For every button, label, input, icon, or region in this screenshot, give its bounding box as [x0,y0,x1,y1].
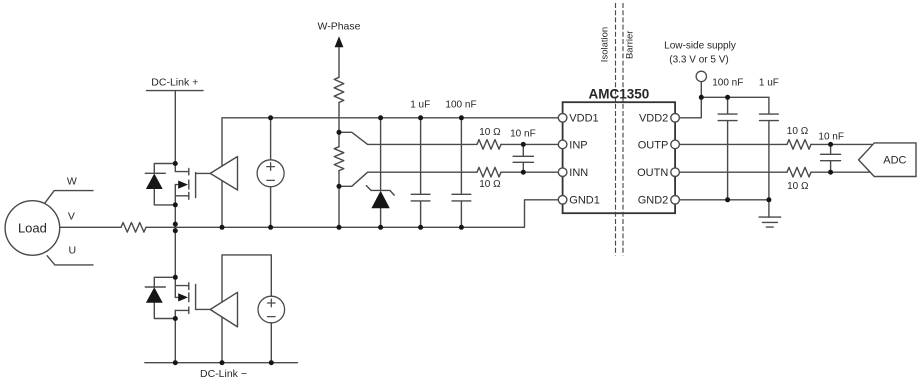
svg-text:1 uF: 1 uF [410,99,430,110]
svg-text:VDD2: VDD2 [639,113,668,125]
svg-text:GND1: GND1 [569,195,600,207]
svg-text:ADC: ADC [883,155,906,167]
svg-text:10 nF: 10 nF [510,129,536,140]
svg-text:DC-Link +: DC-Link + [151,76,198,88]
svg-text:10 Ω: 10 Ω [479,179,501,190]
svg-text:OUTP: OUTP [638,139,669,151]
svg-text:INN: INN [569,167,588,179]
svg-text:U: U [69,245,77,257]
svg-text:INP: INP [569,139,587,151]
svg-text:Load: Load [18,220,47,235]
svg-text:10 Ω: 10 Ω [479,127,501,138]
svg-text:V: V [68,210,75,222]
svg-text:Barrier: Barrier [624,31,635,60]
svg-text:10 Ω: 10 Ω [787,181,809,192]
svg-text:W-Phase: W-Phase [318,21,361,33]
svg-text:DC-Link −: DC-Link − [200,368,247,380]
svg-text:VDD1: VDD1 [569,113,598,125]
svg-text:1 uF: 1 uF [759,78,779,89]
svg-text:10 nF: 10 nF [818,131,844,142]
svg-text:W: W [67,175,77,187]
svg-text:GND2: GND2 [638,195,669,207]
svg-text:Low-side supply: Low-side supply [664,40,736,51]
svg-text:OUTN: OUTN [637,167,668,179]
svg-text:10 Ω: 10 Ω [787,126,809,137]
svg-text:100 nF: 100 nF [445,99,476,110]
svg-text:100 nF: 100 nF [712,78,743,89]
svg-text:AMC1350: AMC1350 [589,87,650,102]
svg-text:(3.3 V or 5 V): (3.3 V or 5 V) [669,55,728,66]
svg-text:Isolation: Isolation [600,27,611,62]
